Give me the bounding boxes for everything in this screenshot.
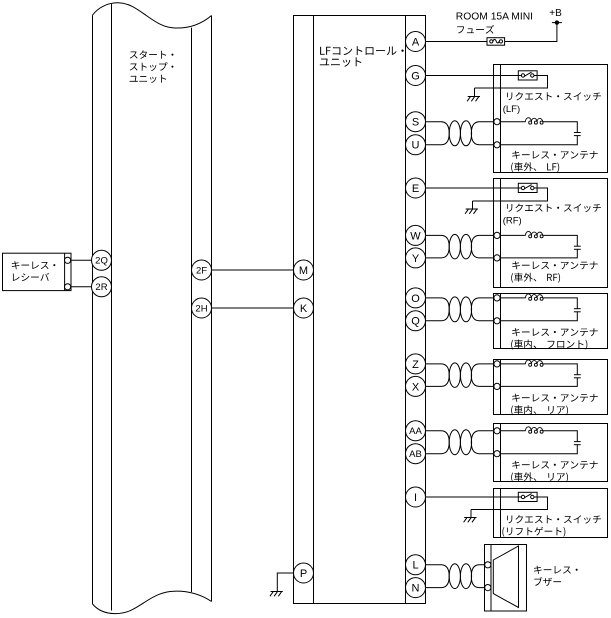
svg-text:S: S <box>412 117 419 129</box>
label keyless buzzer line1 <box>534 566 578 574</box>
svg-text:I: I <box>414 492 417 504</box>
terminal A <box>406 32 426 52</box>
antenna L5 keyless (outside rear) coil <box>525 427 543 433</box>
svg-text:K: K <box>300 303 308 315</box>
switch SW1 request (LF) <box>518 71 537 80</box>
wire receiver pin1 to 2Q <box>71 259 93 261</box>
wire I to switch liftgate <box>426 496 524 498</box>
antenna rear-out pin 1 <box>494 428 500 434</box>
antenna RF pin 1 <box>494 232 500 238</box>
label keyless antenna rear-out line2 <box>511 472 568 482</box>
svg-text:2H: 2H <box>195 303 207 314</box>
twisted pair Z-X <box>426 363 498 388</box>
twisted pair O-Q <box>426 297 498 322</box>
receiver pin 1 <box>65 257 71 263</box>
antenna front pin 1 <box>494 295 500 301</box>
terminal 2Q <box>92 250 112 270</box>
keyless antenna (interior rear) box <box>494 360 608 415</box>
label keyless antenna RF line2 <box>511 273 560 283</box>
antenna front pin 2 <box>494 318 500 324</box>
antenna rear-int pin 2 <box>494 383 500 389</box>
terminal M <box>294 260 314 280</box>
terminal 2F <box>192 260 212 280</box>
wire receiver pin2 to 2R <box>71 286 93 288</box>
ground G3 (request switch liftgate) <box>464 510 477 523</box>
antenna LF pin 2 <box>494 142 500 148</box>
keyless buzzer box <box>485 545 527 612</box>
terminal X <box>406 376 426 396</box>
keyless receiver box <box>3 253 72 290</box>
keyless antenna (outside rear) box <box>494 424 608 482</box>
svg-text:G: G <box>411 70 420 82</box>
antenna L1 keyless (outside LF) <box>497 122 581 145</box>
svg-text:E: E <box>412 183 419 195</box>
buzzer pin 2 <box>485 585 491 591</box>
label request switch liftgate line1 <box>507 515 601 524</box>
antenna rear-int pin 1 <box>494 361 500 367</box>
svg-text:M: M <box>299 265 308 277</box>
antenna LF pin 1 <box>494 119 500 125</box>
start-stop unit label line2 <box>130 62 174 71</box>
terminal AA <box>406 421 426 441</box>
terminal E <box>406 178 426 198</box>
request switch (liftgate) box <box>494 489 608 538</box>
start-stop unit label line3 <box>130 75 167 83</box>
wire switch LF to ground <box>475 76 548 89</box>
terminal AB <box>406 444 426 464</box>
terminal 2H <box>192 298 212 318</box>
label keyless antenna front line1 <box>512 328 598 336</box>
keyless antenna (interior front) box <box>494 294 608 349</box>
svg-text:+B: +B <box>549 8 562 19</box>
terminal U <box>406 135 426 155</box>
terminal L <box>406 555 426 575</box>
wire 2F to M <box>212 269 294 271</box>
svg-text:ROOM 15A MINI: ROOM 15A MINI <box>456 12 533 23</box>
svg-text:(RF): (RF) <box>503 216 522 227</box>
terminal N <box>406 578 426 598</box>
label keyless antenna rear-int line2 <box>511 405 568 415</box>
terminal Y <box>406 248 426 268</box>
receiver pin 2 <box>65 284 71 290</box>
svg-text:Y: Y <box>412 253 420 265</box>
wire switch liftgate to ground <box>471 497 548 510</box>
antenna L2 keyless (outside RF) coil <box>525 231 543 237</box>
label keyless antenna rear-int line1 <box>512 394 598 402</box>
terminal S <box>406 112 426 132</box>
keyless receiver label line2 <box>13 273 49 281</box>
LF control unit label line1 <box>320 46 404 55</box>
antenna L3 keyless (interior front) coil <box>525 294 543 300</box>
antenna L4 keyless (interior rear) <box>497 364 581 387</box>
start-stop unit label line1 <box>130 50 174 58</box>
keyless receiver label line1 <box>12 261 56 269</box>
svg-text:AA: AA <box>409 426 422 437</box>
antenna RF pin 2 <box>494 255 500 261</box>
label keyless buzzer line2 <box>534 577 561 586</box>
svg-text:2F: 2F <box>196 265 207 276</box>
svg-text:2Q: 2Q <box>95 256 108 267</box>
label keyless antenna front line2 <box>511 340 587 350</box>
label request switch LF line1 <box>507 92 601 101</box>
twisted pair S-U <box>426 121 498 146</box>
svg-text:(LF): (LF) <box>503 104 520 115</box>
request switch (LF) / keyless antenna (LF) box <box>494 65 608 173</box>
antenna L3 keyless (interior front) <box>497 298 581 321</box>
antenna L2 keyless (outside RF) <box>497 235 581 258</box>
svg-text:Z: Z <box>412 359 419 371</box>
label fuse line2 <box>457 25 494 34</box>
svg-text:O: O <box>411 293 420 305</box>
terminal 2R <box>92 277 112 297</box>
request switch (RF) / keyless antenna (RF) box <box>494 179 608 288</box>
antenna L4 keyless (interior rear) coil <box>525 360 543 366</box>
svg-text:AB: AB <box>409 449 422 460</box>
wire switch RF to ground <box>473 188 548 201</box>
svg-text:U: U <box>412 140 420 152</box>
wire P to ground <box>277 573 293 591</box>
terminal P <box>294 563 314 583</box>
svg-text:W: W <box>410 230 421 242</box>
wire E to switch RF <box>426 187 524 189</box>
buzzer pin 1 <box>485 562 491 568</box>
antenna rear-out pin 2 <box>494 451 500 457</box>
wire fuse to +B <box>505 23 557 42</box>
label keyless antenna RF line1 <box>512 261 598 269</box>
antenna L1 keyless (outside LF) coil <box>525 118 543 124</box>
label keyless antenna LF line2 <box>511 162 559 172</box>
terminal K <box>294 298 314 318</box>
label keyless antenna LF line1 <box>512 151 598 159</box>
terminal O <box>406 288 426 308</box>
ground G1 (request switch LF) <box>467 88 480 101</box>
buzzer BZ1 horn symbol <box>493 546 518 608</box>
label request switch RF line1 <box>507 204 601 213</box>
switch SW2 request (RF) <box>518 183 537 192</box>
label request switch liftgate line2 <box>502 527 565 537</box>
twisted pair W-Y <box>426 234 498 259</box>
terminal I <box>406 487 426 507</box>
LF control unit U2 box <box>294 16 426 604</box>
terminal W <box>406 225 426 245</box>
svg-text:2R: 2R <box>95 282 107 293</box>
terminal G <box>406 66 426 86</box>
svg-text:X: X <box>412 381 420 393</box>
svg-text:L: L <box>412 560 418 572</box>
ground G4 (LF unit P) <box>270 591 283 596</box>
node +B battery feed <box>552 20 562 24</box>
terminal Q <box>406 311 426 331</box>
twisted pair L-N <box>426 564 488 589</box>
wire G to switch LF <box>426 75 524 77</box>
svg-text:N: N <box>412 583 420 595</box>
twisted pair AA-AB <box>426 430 498 455</box>
LF control unit label line2 <box>320 57 361 66</box>
ground G2 (request switch RF) <box>465 201 478 214</box>
svg-text:Q: Q <box>411 316 420 328</box>
label keyless antenna rear-out line1 <box>512 461 598 469</box>
fuse F1 ROOM 15A MINI <box>487 38 505 46</box>
antenna L5 keyless (outside rear) <box>497 431 581 454</box>
wire 2H to K <box>212 307 294 309</box>
terminal Z <box>406 354 426 374</box>
svg-text:A: A <box>412 36 420 48</box>
svg-text:P: P <box>300 568 307 580</box>
start-stop unit U1 box <box>93 3 212 614</box>
wire A to fuse <box>426 41 488 43</box>
switch SW3 request (liftgate) <box>518 492 537 501</box>
